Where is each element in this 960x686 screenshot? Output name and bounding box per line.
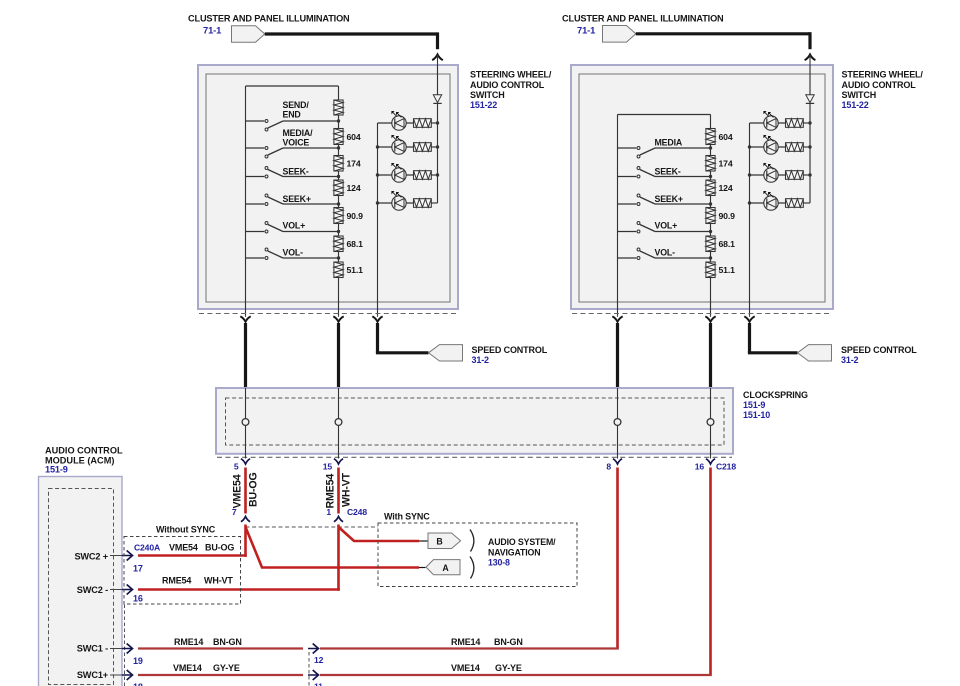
svg-text:GY-YE: GY-YE	[213, 663, 240, 673]
svg-text:VME54: VME54	[232, 474, 244, 508]
svg-text:15: 15	[323, 462, 333, 472]
svg-text:VOICE: VOICE	[283, 137, 310, 147]
svg-text:SWC2 -: SWC2 -	[77, 585, 108, 595]
svg-text:VME14: VME14	[451, 663, 480, 673]
svg-text:NAVIGATION: NAVIGATION	[488, 548, 540, 558]
svg-text:BN-GN: BN-GN	[213, 637, 242, 647]
svg-text:WH-VT: WH-VT	[204, 576, 233, 586]
svg-text:5: 5	[234, 462, 239, 472]
svg-text:BU-OG: BU-OG	[248, 472, 260, 507]
svg-text:68.1: 68.1	[347, 239, 364, 249]
svg-text:31-2: 31-2	[841, 355, 859, 365]
svg-text:VOL-: VOL-	[655, 248, 676, 258]
svg-text:SWITCH: SWITCH	[842, 90, 877, 100]
svg-text:A: A	[442, 563, 449, 573]
svg-text:SEEK-: SEEK-	[283, 166, 309, 176]
svg-text:C248: C248	[347, 507, 367, 517]
svg-text:CLUSTER AND PANEL ILLUMINATION: CLUSTER AND PANEL ILLUMINATION	[562, 14, 724, 24]
svg-text:VME14: VME14	[173, 663, 202, 673]
svg-text:71-1: 71-1	[577, 25, 595, 36]
svg-text:B: B	[436, 537, 442, 547]
svg-text:WH-VT: WH-VT	[341, 472, 353, 507]
svg-text:RME14: RME14	[174, 637, 203, 647]
svg-text:604: 604	[347, 132, 361, 142]
svg-text:71-1: 71-1	[203, 25, 221, 36]
svg-text:STEERING WHEEL/: STEERING WHEEL/	[470, 70, 552, 80]
svg-text:VME54: VME54	[169, 543, 198, 553]
svg-text:51.1: 51.1	[347, 265, 364, 275]
svg-text:BU-OG: BU-OG	[205, 543, 234, 553]
svg-text:151-22: 151-22	[470, 100, 497, 110]
svg-text:MEDIA: MEDIA	[655, 138, 683, 148]
svg-text:Without SYNC: Without SYNC	[156, 525, 216, 535]
svg-text:130-8: 130-8	[488, 558, 510, 568]
svg-text:AUDIO SYSTEM/: AUDIO SYSTEM/	[488, 537, 556, 547]
svg-text:STEERING WHEEL/: STEERING WHEEL/	[842, 70, 924, 80]
svg-text:18: 18	[133, 682, 143, 686]
svg-text:68.1: 68.1	[719, 239, 736, 249]
svg-text:RME14: RME14	[451, 637, 480, 647]
svg-text:151-10: 151-10	[743, 410, 770, 420]
svg-text:SEND/: SEND/	[283, 100, 310, 110]
svg-text:GY-YE: GY-YE	[495, 663, 522, 673]
svg-text:SPEED CONTROL: SPEED CONTROL	[472, 345, 548, 355]
svg-text:124: 124	[719, 183, 733, 193]
svg-text:CLOCKSPRING: CLOCKSPRING	[743, 390, 808, 400]
svg-text:AUDIO CONTROL: AUDIO CONTROL	[842, 80, 917, 90]
svg-text:C240A: C240A	[134, 543, 160, 553]
svg-text:VOL+: VOL+	[283, 221, 306, 231]
svg-text:SEEK+: SEEK+	[655, 194, 683, 204]
svg-text:AUDIO CONTROL: AUDIO CONTROL	[470, 80, 545, 90]
svg-text:151-9: 151-9	[45, 465, 68, 475]
svg-text:151-22: 151-22	[842, 100, 869, 110]
svg-text:SPEED CONTROL: SPEED CONTROL	[841, 345, 917, 355]
svg-text:SWITCH: SWITCH	[470, 90, 505, 100]
svg-text:RME54: RME54	[325, 474, 337, 509]
svg-text:8: 8	[606, 462, 611, 472]
svg-text:SWC1+: SWC1+	[77, 670, 108, 680]
svg-text:90.9: 90.9	[347, 211, 364, 221]
svg-text:SWC2 +: SWC2 +	[74, 552, 108, 562]
svg-text:90.9: 90.9	[719, 211, 736, 221]
svg-text:19: 19	[133, 656, 143, 666]
svg-text:12: 12	[314, 655, 324, 665]
svg-text:VOL+: VOL+	[655, 221, 678, 231]
svg-text:11: 11	[314, 682, 323, 686]
svg-text:AUDIO CONTROL: AUDIO CONTROL	[45, 446, 123, 456]
svg-text:174: 174	[719, 159, 733, 169]
svg-text:604: 604	[719, 132, 733, 142]
svg-text:C218: C218	[716, 462, 736, 472]
svg-text:VOL-: VOL-	[283, 248, 304, 258]
svg-text:SEEK+: SEEK+	[283, 194, 311, 204]
svg-text:CLUSTER AND PANEL ILLUMINATION: CLUSTER AND PANEL ILLUMINATION	[188, 14, 350, 24]
svg-text:124: 124	[347, 183, 361, 193]
svg-text:SWC1 -: SWC1 -	[77, 644, 108, 654]
svg-text:17: 17	[133, 564, 143, 574]
svg-text:END: END	[283, 110, 301, 120]
svg-text:RME54: RME54	[162, 576, 191, 586]
svg-text:16: 16	[695, 462, 705, 472]
svg-text:151-9: 151-9	[743, 400, 765, 410]
svg-text:SEEK-: SEEK-	[655, 166, 681, 176]
svg-text:174: 174	[347, 159, 361, 169]
svg-text:31-2: 31-2	[472, 355, 490, 365]
svg-text:BN-GN: BN-GN	[494, 637, 523, 647]
svg-text:16: 16	[133, 594, 143, 604]
svg-text:51.1: 51.1	[719, 265, 736, 275]
svg-text:With SYNC: With SYNC	[384, 512, 430, 522]
